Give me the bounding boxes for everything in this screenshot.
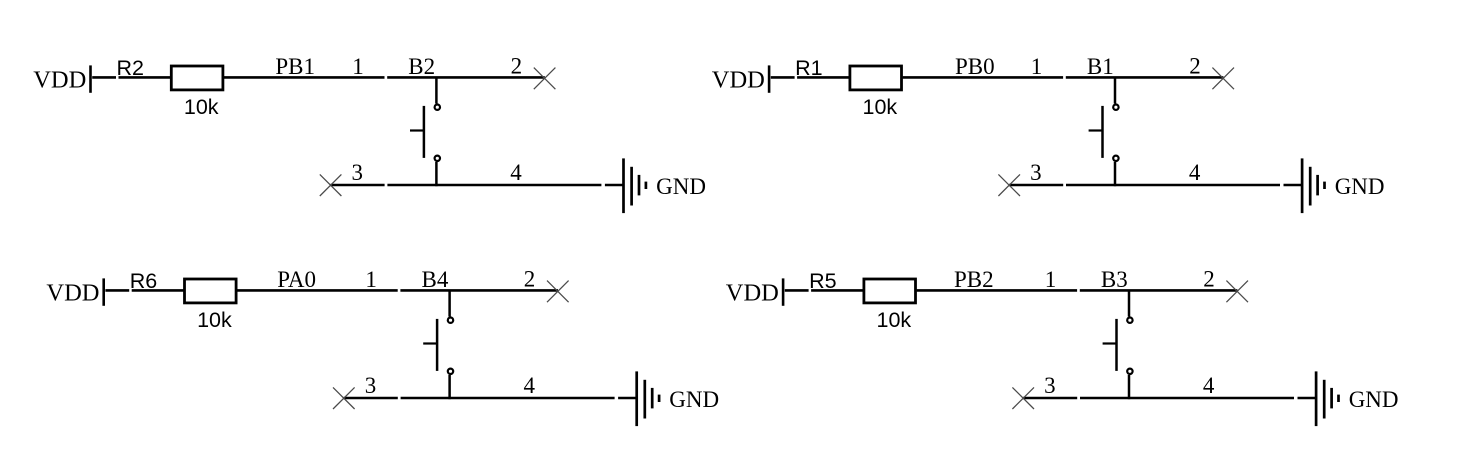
wire net PB2 : R5 to B3 pin 1 and pin 2 <box>917 289 1238 292</box>
svg-text:B2: B2 <box>408 54 435 79</box>
svg-text:PB1: PB1 <box>275 54 315 79</box>
power symbol VDD (top-left) <box>33 65 90 93</box>
wire VDD to R6 <box>105 289 183 292</box>
svg-text:PB2: PB2 <box>954 267 994 292</box>
svg-text:VDD: VDD <box>712 67 765 94</box>
resistor R1 <box>850 66 902 90</box>
svg-text:3: 3 <box>365 373 377 398</box>
svg-text:3: 3 <box>1030 160 1042 185</box>
wire B1 pin 3 / pin 4 to GND <box>1009 184 1301 187</box>
svg-text:R2: R2 <box>117 56 144 80</box>
svg-text:B3: B3 <box>1101 267 1128 292</box>
pushbutton B1 <box>1089 77 1119 186</box>
svg-text:VDD: VDD <box>33 67 86 94</box>
svg-text:4: 4 <box>510 160 522 185</box>
svg-text:1: 1 <box>1031 54 1043 79</box>
svg-text:VDD: VDD <box>726 280 779 307</box>
svg-text:B1: B1 <box>1087 54 1114 79</box>
svg-text:10k: 10k <box>184 95 219 119</box>
svg-text:GND: GND <box>1335 174 1385 199</box>
power symbol VDD (top-right) <box>712 65 769 93</box>
svg-text:PA0: PA0 <box>277 267 316 292</box>
svg-text:4: 4 <box>1203 373 1215 398</box>
svg-text:2: 2 <box>1203 266 1215 291</box>
power symbol VDD (bottom-right) <box>726 278 783 306</box>
svg-text:GND: GND <box>1349 387 1399 412</box>
resistor R5 <box>864 279 916 303</box>
wire VDD to R2 <box>92 76 170 79</box>
no-connect X B2 pin 2 <box>534 68 556 90</box>
svg-text:1: 1 <box>1045 267 1057 292</box>
no-connect X B4 pin 2 <box>547 281 569 303</box>
wire B2 pin 3 / pin 4 to GND <box>331 184 623 187</box>
pushbutton B4 <box>423 290 453 399</box>
no-connect X B3 pin 3 <box>1012 387 1034 409</box>
svg-text:GND: GND <box>669 387 719 412</box>
no-connect X B3 pin 2 <box>1226 281 1248 303</box>
wire B4 pin 3 / pin 4 to GND <box>344 397 636 400</box>
ground symbol GND <box>637 371 659 426</box>
svg-text:10k: 10k <box>197 308 232 332</box>
no-connect X B1 pin 3 <box>998 174 1020 196</box>
wire B3 pin 3 / pin 4 to GND <box>1023 397 1315 400</box>
svg-text:VDD: VDD <box>46 280 99 307</box>
svg-text:3: 3 <box>1044 373 1056 398</box>
resistor R6 <box>185 279 237 303</box>
pushbutton B3 <box>1103 290 1133 399</box>
no-connect X B2 pin 3 <box>320 174 342 196</box>
resistor R2 <box>171 66 223 90</box>
svg-text:R6: R6 <box>130 269 158 293</box>
svg-text:PB0: PB0 <box>955 54 995 79</box>
no-connect X B1 pin 2 <box>1212 68 1234 90</box>
svg-text:1: 1 <box>365 267 377 292</box>
svg-text:4: 4 <box>1189 160 1201 185</box>
ground symbol GND <box>1316 371 1338 426</box>
svg-text:10k: 10k <box>863 95 898 119</box>
ground symbol GND <box>624 158 646 213</box>
pushbutton B2 <box>410 77 440 186</box>
svg-text:R1: R1 <box>795 56 822 80</box>
svg-text:R5: R5 <box>809 269 837 293</box>
svg-text:B4: B4 <box>422 267 449 292</box>
wire net PA0 : R6 to B4 pin 1 and pin 2 <box>237 289 558 292</box>
svg-text:2: 2 <box>511 53 522 78</box>
ground symbol GND <box>1302 158 1324 213</box>
no-connect X B4 pin 3 <box>333 387 355 409</box>
power symbol VDD (bottom-left) <box>46 278 103 306</box>
svg-text:2: 2 <box>1189 53 1201 78</box>
wire net PB0 : R1 to B1 pin 1 and pin 2 <box>903 76 1224 79</box>
svg-text:1: 1 <box>352 54 364 79</box>
svg-text:3: 3 <box>352 160 364 185</box>
svg-text:2: 2 <box>524 266 536 291</box>
wire net PB1 : R2 to B2 pin 1 and pin 2 <box>224 76 545 79</box>
svg-text:GND: GND <box>656 174 706 199</box>
wire VDD to R5 <box>785 289 863 292</box>
svg-text:10k: 10k <box>877 308 912 332</box>
wire VDD to R1 <box>771 76 849 79</box>
svg-text:4: 4 <box>524 373 536 398</box>
